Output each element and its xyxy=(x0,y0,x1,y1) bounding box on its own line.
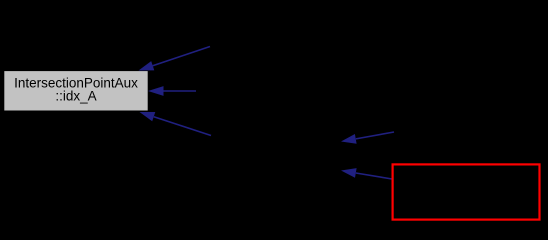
svg-text:::idx_A: ::idx_A xyxy=(55,88,96,103)
